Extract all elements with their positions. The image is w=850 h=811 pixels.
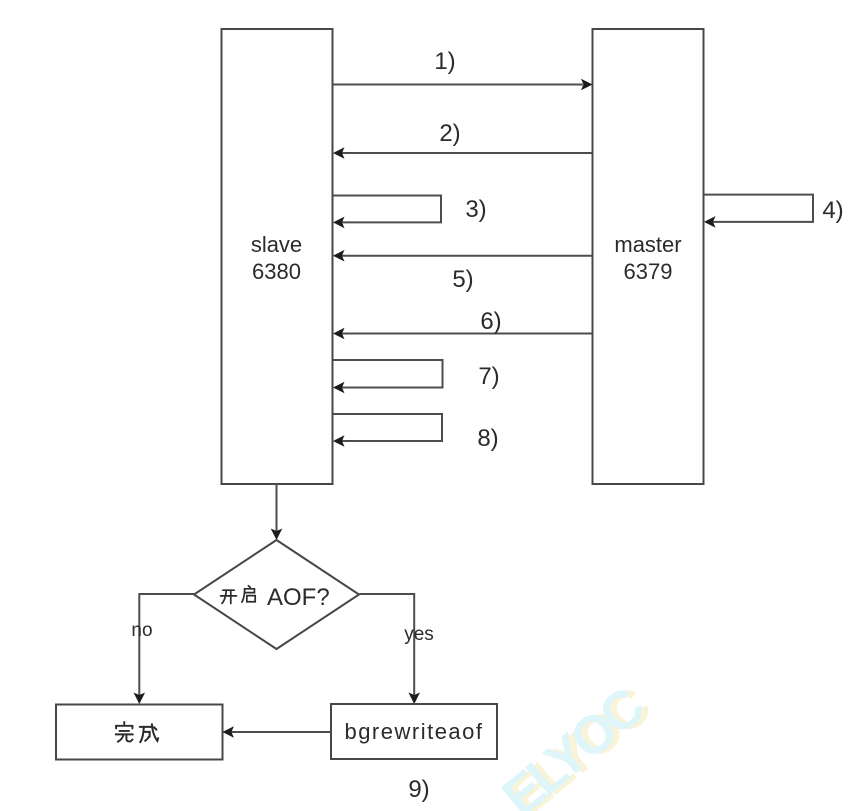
svg-text:slave: slave — [251, 232, 302, 257]
svg-text:6): 6) — [480, 308, 501, 335]
hanzi qi — [242, 586, 255, 602]
hanzi wan — [116, 722, 133, 742]
wire slave bottom to diamond — [276, 484, 278, 531]
svg-text:yes: yes — [404, 624, 434, 645]
svg-text:6379: 6379 — [624, 259, 673, 284]
svg-text:9): 9) — [408, 776, 429, 803]
arrow 5 master to slave — [342, 255, 593, 257]
hanzi cheng — [140, 724, 158, 742]
hanzi kai — [221, 590, 237, 603]
svg-text:7): 7) — [478, 363, 499, 390]
svg-text:3): 3) — [465, 196, 486, 223]
svg-text:2): 2) — [439, 120, 460, 147]
loop 3 on slave — [333, 196, 441, 223]
svg-text:master: master — [614, 232, 681, 257]
loop 7 on slave — [333, 360, 443, 388]
slave box — [222, 29, 333, 484]
master box — [593, 29, 704, 484]
loop 8 on slave — [333, 414, 442, 441]
loop 4 on master — [704, 195, 813, 222]
svg-text:1): 1) — [434, 48, 455, 75]
wire no branch — [139, 594, 194, 695]
svg-text:8): 8) — [477, 425, 498, 452]
arrow 6 master to slave — [342, 333, 593, 335]
svg-text:AOF?: AOF? — [267, 584, 330, 611]
arrow 1 slave to master — [333, 84, 583, 86]
svg-text:bgrewriteaof: bgrewriteaof — [344, 719, 483, 744]
watermark yellow shadow — [491, 673, 662, 811]
svg-text:6380: 6380 — [252, 259, 301, 284]
svg-text:5): 5) — [452, 266, 473, 293]
box 完成 — [56, 705, 223, 760]
arrow 2 master to slave — [342, 152, 593, 154]
box bgrewriteaof — [331, 704, 497, 759]
svg-text:4): 4) — [822, 197, 843, 224]
svg-text:no: no — [131, 620, 152, 641]
arrow bgrewriteaof to wan-cheng — [232, 731, 332, 733]
wire yes branch — [359, 594, 414, 695]
diamond 开启 AOF? — [194, 540, 359, 649]
